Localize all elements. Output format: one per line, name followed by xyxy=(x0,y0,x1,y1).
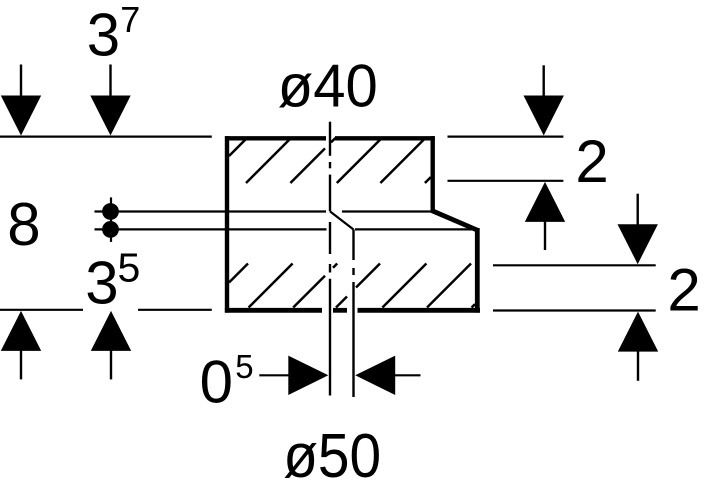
arrow up upper-right xyxy=(525,182,565,222)
svg-text:5: 5 xyxy=(235,348,253,385)
arrow tails xyxy=(21,65,638,381)
svg-text:3: 3 xyxy=(85,249,118,316)
part outline: right edge upper xyxy=(431,136,435,212)
svg-text:2: 2 xyxy=(667,256,700,323)
centerline jog xyxy=(330,211,354,229)
arrow up lower-right xyxy=(618,312,658,352)
arrow right (0.5) xyxy=(288,356,328,395)
hatching lower section xyxy=(229,264,475,308)
svg-text:2: 2 xyxy=(575,128,608,195)
dot upper xyxy=(102,203,119,220)
dimension lines lower-right (2) xyxy=(493,265,656,310)
arrow down left1 xyxy=(1,96,41,136)
dot lower xyxy=(102,221,119,238)
arrow down lower-right xyxy=(618,224,658,264)
svg-text:8: 8 xyxy=(7,191,40,258)
part outline: right edge lower xyxy=(475,228,480,313)
extension line through dots xyxy=(110,197,112,242)
svg-text:7: 7 xyxy=(120,0,140,40)
dimension lines upper-right (2) xyxy=(448,137,564,181)
dimension line bottom-left (3.5 / 8 lower) xyxy=(0,309,212,311)
part outline: chamfer xyxy=(432,211,478,231)
arrow down left2 xyxy=(90,96,130,136)
shoulder line upper xyxy=(95,210,432,212)
leader lines 0.5 xyxy=(259,374,420,376)
svg-text:ø40: ø40 xyxy=(278,53,378,120)
arrow up left2 xyxy=(91,311,131,351)
part outline: left edge xyxy=(225,136,229,313)
svg-text:3: 3 xyxy=(87,2,120,69)
svg-text:5: 5 xyxy=(118,245,141,291)
part outline: bottom edge xyxy=(225,308,480,313)
part outline: top edge xyxy=(225,136,435,140)
svg-text:0: 0 xyxy=(200,348,233,415)
dimension line top-left (3.7 / 8 upper) xyxy=(0,136,212,138)
hatching upper section xyxy=(229,138,431,183)
shoulder line lower xyxy=(95,228,476,230)
arrow down upper-right xyxy=(524,96,564,136)
centerline A (o40 axis) xyxy=(329,122,331,396)
centerline B (o50 axis) xyxy=(352,230,354,398)
arrow left (0.5) xyxy=(355,356,395,395)
arrow up left1 xyxy=(1,311,41,351)
svg-text:ø50: ø50 xyxy=(283,422,381,480)
